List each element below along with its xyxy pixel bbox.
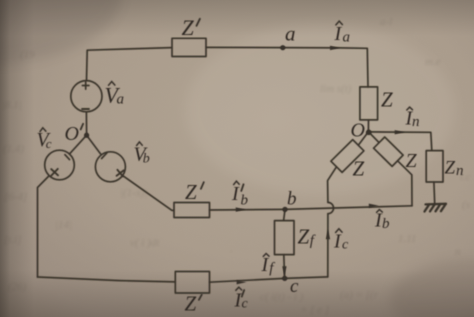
hat of Vb bbox=[137, 142, 143, 146]
node a bbox=[280, 45, 285, 50]
svg-text:O: O bbox=[351, 120, 365, 142]
prime of O' bbox=[81, 124, 83, 130]
wire Z bottom to node O bbox=[367, 120, 369, 132]
svg-text:a: a bbox=[117, 92, 125, 108]
svg-text:I: I bbox=[334, 23, 343, 45]
svg-text:n: n bbox=[412, 114, 420, 130]
svg-text:Z: Z bbox=[185, 292, 197, 316]
load resistor Z (right diagonal, phase b) bbox=[374, 137, 404, 166]
prime of top Z' bbox=[197, 19, 200, 26]
svg-text:I: I bbox=[231, 183, 240, 205]
svg-text:[6-4]: [6-4] bbox=[4, 191, 27, 203]
svg-text:c: c bbox=[46, 136, 52, 151]
svg-text:1.11: 1.11 bbox=[398, 233, 416, 245]
svg-text:b: b bbox=[241, 193, 249, 209]
svg-text:lim s(t): lim s(t) bbox=[320, 83, 352, 95]
ground symbol bbox=[425, 204, 447, 212]
wire c vertical above hop to corner and diagonal Z bbox=[328, 167, 337, 203]
minus mark of Va bbox=[82, 108, 89, 110]
svg-text:[t.i]: [t.i] bbox=[4, 234, 21, 246]
wire top line left: Va top up and across to Z' bbox=[87, 48, 173, 81]
hat of If bbox=[263, 254, 269, 257]
prime of middle Z' bbox=[201, 182, 204, 189]
svg-text:a: a bbox=[285, 22, 296, 46]
svg-text:(a) = [(r: (a) = [(r bbox=[340, 289, 379, 301]
wire Zn to ground bbox=[433, 182, 436, 204]
wire bottom line: Z' to node c to right corner bbox=[210, 277, 328, 282]
svg-text:Z: Z bbox=[298, 225, 310, 249]
resistor Z' (bottom, line c) bbox=[175, 272, 209, 294]
wire node b down to Zf bbox=[284, 209, 285, 220]
wire O to right diagonal Z bbox=[368, 132, 379, 143]
arrow of current Ia bbox=[330, 46, 340, 50]
source Va bbox=[71, 81, 102, 112]
svg-text:Z: Z bbox=[185, 180, 197, 204]
source Vc bbox=[45, 150, 75, 180]
plus mark of Va bbox=[82, 82, 89, 89]
svg-text:b: b bbox=[382, 216, 390, 232]
svg-text:I: I bbox=[261, 254, 270, 276]
minus mark of Vc bbox=[65, 155, 70, 160]
resistor Z' (middle, line b) bbox=[174, 203, 210, 218]
svg-text:O: O bbox=[65, 123, 79, 145]
arrow of current Ic (upward) bbox=[326, 230, 330, 240]
node b bbox=[282, 207, 287, 212]
svg-text:(26): (26) bbox=[8, 281, 27, 293]
svg-text:+ [ e ]: + [ e ] bbox=[300, 304, 329, 316]
prime of bottom Z' bbox=[199, 295, 202, 300]
resistor Zf bbox=[275, 221, 295, 255]
wire top line right: Z' to node a to corner, down to Z bbox=[206, 47, 368, 87]
svg-text:.: . bbox=[230, 243, 233, 255]
wire O' to Vc bbox=[69, 135, 86, 154]
wire middle line: Z' to node b to right end bbox=[210, 206, 413, 210]
svg-text:(1.4): (1.4) bbox=[3, 143, 24, 155]
svg-text:m.e: m.e bbox=[425, 56, 441, 68]
arrow of current If (downward) bbox=[282, 266, 286, 276]
hat of I'c bbox=[236, 287, 242, 290]
hat of In bbox=[407, 107, 413, 110]
wire Zf to node c bbox=[283, 255, 286, 279]
svg-text:(s: (s bbox=[462, 199, 470, 211]
svg-text:|14|: |14| bbox=[55, 219, 72, 231]
svg-text:a: a bbox=[343, 30, 351, 46]
svg-text:b: b bbox=[287, 189, 297, 210]
hat of Ib bbox=[377, 210, 383, 213]
arrow of current I'c bbox=[237, 280, 247, 284]
plus mark of Vc bbox=[51, 169, 58, 176]
svg-text:Z: Z bbox=[445, 158, 456, 179]
hat of Va bbox=[109, 82, 115, 86]
load resistor Z (vertical, phase a) bbox=[360, 87, 378, 120]
hop of c wire over b wire bbox=[328, 202, 334, 213]
node O' bbox=[84, 133, 89, 138]
minus mark of Vb bbox=[102, 153, 107, 159]
svg-text:(19: (19 bbox=[20, 49, 35, 61]
svg-text:Z: Z bbox=[353, 157, 365, 181]
wire Vc to left vertical and down bbox=[38, 176, 50, 277]
resistor Z' (top, line a) bbox=[172, 38, 206, 56]
svg-text:b: b bbox=[143, 152, 150, 167]
wire right diagonal Z down to b line end bbox=[398, 161, 412, 206]
svg-text:a-l: a-l bbox=[380, 16, 392, 28]
svg-text:c: c bbox=[290, 276, 299, 297]
hat of Ic bbox=[336, 229, 343, 233]
wire O to neutral Zn bbox=[368, 132, 431, 151]
svg-text:|(1-x)|: |(1-x)| bbox=[120, 187, 147, 199]
wire O to left diagonal Z bbox=[358, 132, 368, 146]
arrow of current I'b bbox=[236, 207, 246, 211]
wire right vertical of c up to hop bbox=[327, 214, 329, 277]
svg-text:I: I bbox=[333, 231, 342, 253]
svg-text:|8.1|: |8.1| bbox=[2, 99, 22, 111]
prime of I'c bbox=[242, 290, 244, 297]
source Vb bbox=[95, 152, 125, 182]
hat of Vc bbox=[40, 128, 46, 132]
svg-text:n: n bbox=[456, 163, 464, 179]
wire Vb to middle Z' bbox=[123, 176, 174, 211]
prime of I'b bbox=[241, 184, 243, 191]
arrow of current In bbox=[395, 130, 405, 134]
resistor Zn bbox=[426, 151, 443, 182]
plus mark of Vb bbox=[117, 170, 124, 177]
hat of I'b bbox=[234, 181, 240, 184]
svg-text:Z: Z bbox=[182, 15, 195, 40]
wire bottom line left to Z' bbox=[38, 277, 176, 282]
node O bbox=[366, 130, 372, 136]
svg-text:c: c bbox=[342, 238, 349, 253]
svg-text:Z: Z bbox=[406, 150, 418, 172]
wire O' to Vb bbox=[87, 135, 102, 155]
wire Va bottom to O' bbox=[85, 112, 87, 135]
arrow of current Ib bbox=[369, 204, 379, 208]
svg-text:Z: Z bbox=[381, 88, 393, 112]
svg-text:v( i )dt: v( i )dt bbox=[130, 237, 160, 249]
svg-text:n: n bbox=[455, 246, 461, 258]
hat of Ia bbox=[336, 21, 343, 25]
load resistor Z (left diagonal, phase c) bbox=[331, 140, 364, 173]
svg-text:c: c bbox=[242, 297, 249, 312]
node c bbox=[282, 276, 287, 281]
